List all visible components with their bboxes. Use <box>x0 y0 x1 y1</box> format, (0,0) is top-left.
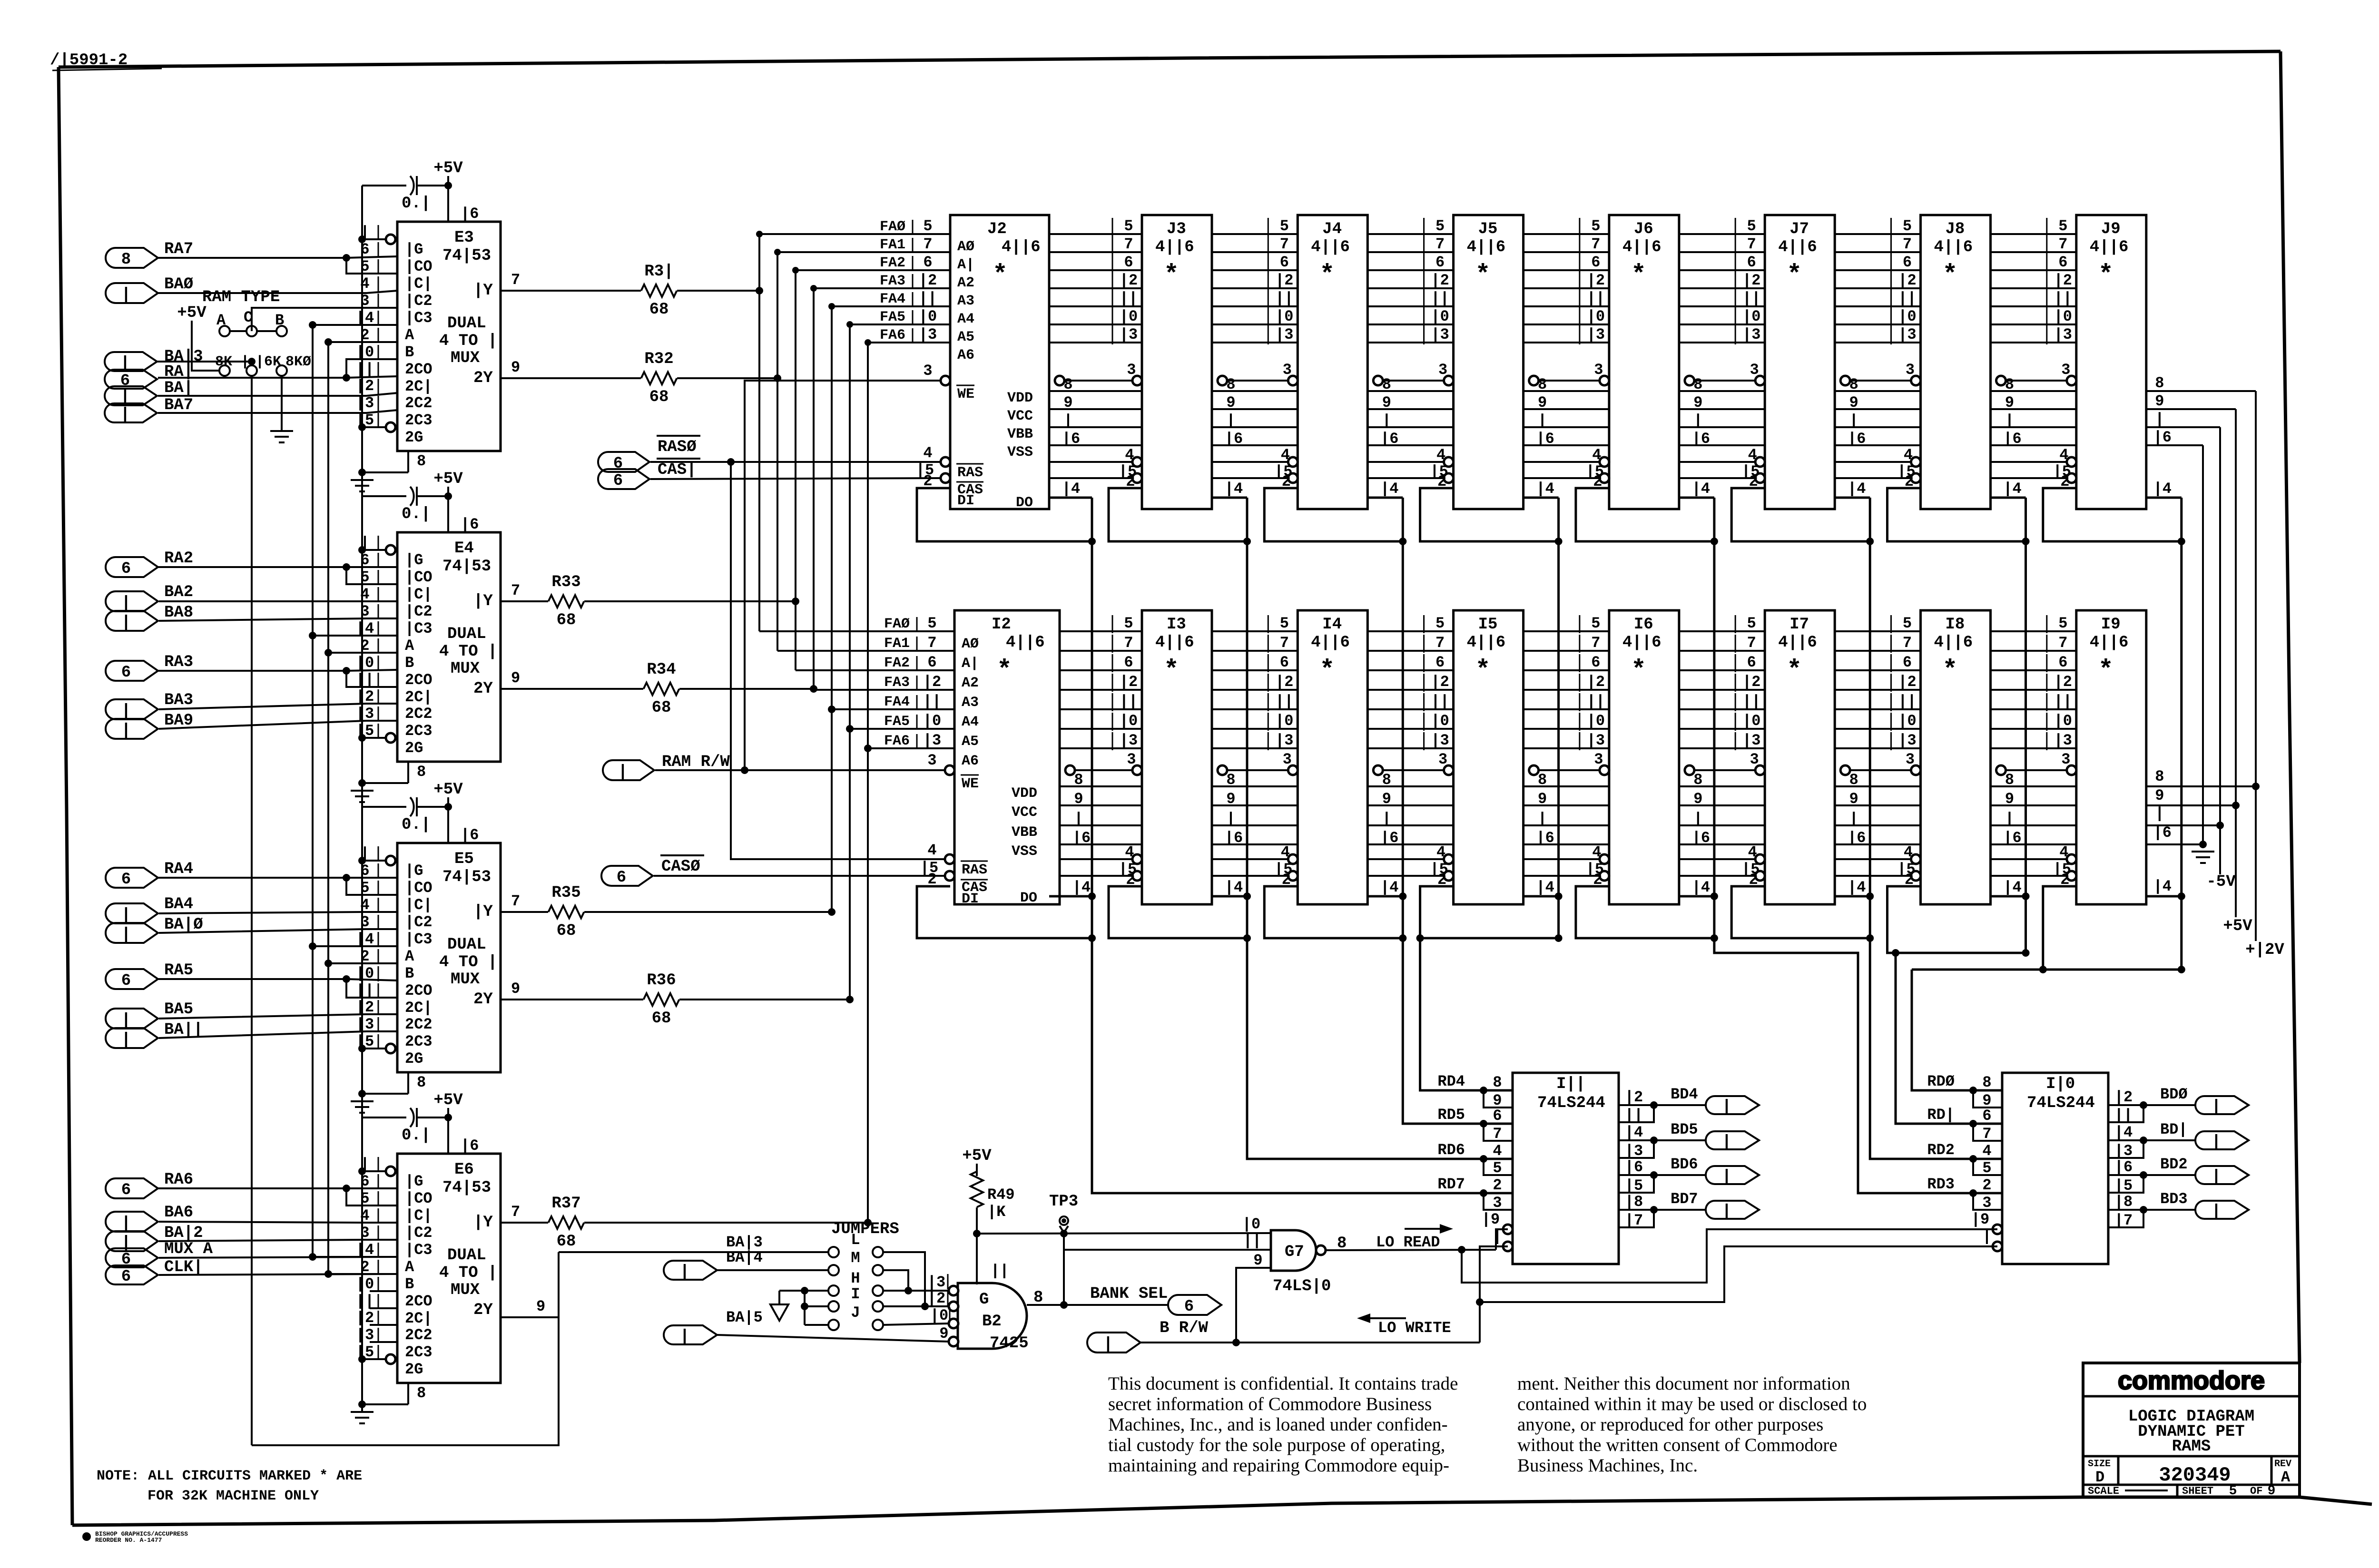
svg-text:|0: |0 <box>930 1307 948 1324</box>
wire address bus segment to I4 <box>1212 630 1298 632</box>
wire power bus segment to J4 <box>1212 390 1298 392</box>
svg-text:|4: |4 <box>1072 879 1091 896</box>
wire FA5 into I2 pin |0 <box>850 728 954 730</box>
svg-text:|0: |0 <box>356 654 374 672</box>
svg-text:2C3: 2C3 <box>405 412 433 429</box>
op-amp J8 4116 RAM <box>1921 215 1991 509</box>
svg-text:C: C <box>244 309 253 326</box>
svg-text:5: 5 <box>1280 615 1289 632</box>
svg-text:|6: |6 <box>1062 430 1080 448</box>
wire power bus segment to I9 <box>1991 785 2076 787</box>
svg-text:|: | <box>1226 810 1235 828</box>
svg-text:6: 6 <box>121 664 131 682</box>
svg-text:6: 6 <box>1903 654 1912 671</box>
svg-text:|4: |4 <box>1625 1124 1643 1141</box>
svg-text:3: 3 <box>1283 361 1292 379</box>
svg-text:74|53: 74|53 <box>442 247 491 265</box>
wire RAS CAS segments to I9 <box>1991 858 2071 860</box>
svg-text:BD5: BD5 <box>1671 1121 1698 1138</box>
svg-text:8: 8 <box>1693 771 1702 789</box>
wire E4 1G 2G enable stubs <box>362 549 386 551</box>
svg-text:|0: |0 <box>1120 712 1138 730</box>
svg-text:BANK SEL: BANK SEL <box>1090 1285 1168 1303</box>
svg-text:CLK|: CLK| <box>164 1258 203 1276</box>
op-amp I9 4116 RAM <box>2076 610 2146 904</box>
svg-text:A: A <box>2281 1469 2291 1486</box>
wire LO READ to I11 pin 19 <box>1496 1229 1508 1250</box>
svg-text:74LS|0: 74LS|0 <box>1273 1277 1331 1295</box>
wire FA3 vertical bus <box>813 288 815 690</box>
svg-text:|0: |0 <box>2054 712 2072 730</box>
svg-text:|3: |3 <box>1120 326 1138 343</box>
op-amp I2 4116 RAM <box>954 610 1060 904</box>
svg-text:|4: |4 <box>1536 879 1554 896</box>
svg-text:4||6: 4||6 <box>1155 634 1194 652</box>
svg-text:FA2: FA2 <box>884 655 910 671</box>
svg-text:||: || <box>1243 1232 1261 1250</box>
svg-text:|Y: |Y <box>473 282 493 300</box>
svg-text:5: 5 <box>1280 217 1289 235</box>
svg-text:6: 6 <box>1280 654 1289 671</box>
svg-text:|C2: |C2 <box>405 913 433 931</box>
wire WE segment to J3 <box>1060 380 1136 382</box>
svg-text:|4: |4 <box>2003 879 2021 896</box>
ground at 8K0 pad <box>281 376 283 431</box>
svg-text:*: * <box>2098 261 2114 290</box>
wire B R/W line <box>1140 1342 1480 1343</box>
node jumper I pads <box>828 1301 839 1312</box>
svg-text:9: 9 <box>1849 790 1858 808</box>
wire G7 pin 9 from B R/W <box>1236 1268 1271 1343</box>
svg-text:A|: A| <box>962 656 979 672</box>
wire FA2 vertical bus <box>795 270 796 670</box>
wire BA11 to E5 2C3 <box>159 1031 397 1038</box>
svg-text:6: 6 <box>1747 654 1756 671</box>
svg-text:|C2: |C2 <box>405 1224 433 1242</box>
svg-text:BA6: BA6 <box>164 1204 193 1222</box>
node BD5 output <box>1654 1139 1706 1141</box>
svg-text:3: 3 <box>1438 361 1447 379</box>
wire address bus segment to J9 <box>1991 233 2076 235</box>
wire address bus segment to I8 <box>1835 630 1920 632</box>
wire LO WRITE to enable <box>1479 1302 1481 1343</box>
svg-text:2C3: 2C3 <box>405 722 433 740</box>
wire BA13 <box>157 361 252 363</box>
svg-text:6: 6 <box>1747 254 1756 271</box>
wire J3 data drop to I3 <box>1246 498 1248 938</box>
svg-text:|C2: |C2 <box>405 603 433 620</box>
svg-text:|6: |6 <box>2114 1158 2133 1176</box>
svg-text:9: 9 <box>1226 394 1235 412</box>
svg-text:|3: |3 <box>1120 732 1138 749</box>
wire FA0 into I2 pin 5 <box>759 630 954 632</box>
op-amp I4 4116 RAM <box>1298 610 1367 904</box>
svg-text:RD|: RD| <box>1927 1106 1955 1124</box>
svg-text:BA|Ø: BA|Ø <box>164 916 203 934</box>
svg-text:|: | <box>1722 1098 1731 1116</box>
node BA4 connector <box>106 903 158 923</box>
wire E6 unused stubs <box>370 1290 397 1292</box>
svg-text:74|53: 74|53 <box>442 1179 491 1197</box>
node BA5 connector <box>106 1009 158 1029</box>
svg-text:8: 8 <box>417 452 426 470</box>
svg-text:RAS: RAS <box>962 862 987 878</box>
svg-text:|0: |0 <box>1587 308 1605 325</box>
svg-text:|: | <box>121 1031 131 1049</box>
wire WE segment to J4 <box>1222 380 1292 382</box>
svg-text:4||6: 4||6 <box>1467 634 1506 652</box>
wire RAS CAS segments to I6 <box>1524 858 1603 860</box>
svg-text:|6: |6 <box>2153 824 2172 842</box>
svg-text:+5V: +5V <box>177 304 206 322</box>
wire J6 data drop to I6 <box>1713 498 1715 938</box>
svg-text:|: | <box>1849 810 1858 828</box>
svg-text:7: 7 <box>2058 634 2067 652</box>
wire jumper HIJ ground <box>804 1291 806 1325</box>
wire RAS CAS segments to I8 <box>1835 858 1915 860</box>
svg-text:4||6: 4||6 <box>1778 634 1817 652</box>
svg-text:7: 7 <box>511 1203 520 1221</box>
node RA1 connector <box>105 370 157 389</box>
svg-text:BAØ: BAØ <box>164 275 193 294</box>
svg-text:|: | <box>1538 810 1547 828</box>
wire J9 data drop to I9 <box>2180 498 2182 970</box>
svg-text:|: | <box>1722 1168 1731 1186</box>
svg-text:|: | <box>1226 412 1235 430</box>
svg-text:9: 9 <box>1849 394 1858 412</box>
wire I11 pin 1 to I10 pin 1 <box>1480 1246 1997 1302</box>
wire E3 1G 2G enable stubs <box>362 238 386 240</box>
svg-text:|0: |0 <box>1742 308 1760 325</box>
node RA2 connector <box>106 557 158 577</box>
wire RD6 net <box>1247 938 1513 1159</box>
wire FA1 into I2 pin 7 <box>777 650 954 652</box>
svg-text:|C|: |C| <box>405 586 433 603</box>
svg-text:R32: R32 <box>644 350 673 368</box>
svg-text:|: | <box>2155 805 2164 823</box>
svg-text:4||6: 4||6 <box>2090 238 2129 256</box>
svg-text:|: | <box>1063 412 1072 430</box>
svg-text:AØ: AØ <box>957 239 974 255</box>
svg-text:RD4: RD4 <box>1437 1073 1465 1090</box>
wire J8 data drop to I8 <box>2025 498 2027 953</box>
svg-text:7: 7 <box>1280 235 1289 253</box>
op-amp I|| 74LS244 buffer <box>1513 1073 1619 1264</box>
svg-text:FA6: FA6 <box>884 733 910 749</box>
wire RA5 to E5 2C0/2C1 <box>158 978 346 980</box>
svg-text:3: 3 <box>1982 1194 1991 1212</box>
svg-text:|: | <box>2212 1203 2221 1221</box>
wire E6 pin16 +5V <box>447 1117 449 1154</box>
svg-text:CAS|: CAS| <box>658 461 697 479</box>
wire address bus segment to J6 <box>1524 233 1609 235</box>
svg-text:||: || <box>1742 693 1760 710</box>
svg-text:BD|: BD| <box>2160 1121 2188 1138</box>
svg-text:FA1: FA1 <box>880 237 905 253</box>
svg-text:|2: |2 <box>1625 1088 1643 1106</box>
svg-text:6: 6 <box>1124 254 1133 271</box>
wire RD2 net <box>1870 938 2002 1159</box>
svg-text:4: 4 <box>1592 843 1601 861</box>
svg-text:+5V: +5V <box>433 781 463 799</box>
wire WE segment to J8 <box>1845 380 1915 382</box>
svg-text:0.|: 0.| <box>402 505 431 523</box>
wire RAS CAS segments to J6 <box>1524 461 1603 463</box>
wire E5 A B stubs <box>313 945 397 947</box>
svg-text:D: D <box>2095 1469 2104 1486</box>
svg-text:*: * <box>1319 261 1335 290</box>
wire WE segment to I8 <box>1845 769 1915 771</box>
node BD7 output <box>1654 1209 1706 1211</box>
svg-text:I5: I5 <box>1478 616 1498 634</box>
wire RAS CAS segments to J8 <box>1835 461 1915 463</box>
svg-text:contained within it may be use: contained within it may be used or discl… <box>1517 1394 1867 1414</box>
wire enable/ground vertical bus for muxes <box>361 186 363 1412</box>
resistor R35 68 ohm <box>501 911 548 913</box>
node jumper L pads <box>828 1247 839 1257</box>
wire I|| input pair 8/9 <box>1484 1090 1513 1107</box>
svg-text:2G: 2G <box>405 429 423 446</box>
svg-text:A3: A3 <box>957 293 974 309</box>
wire FA4 into I2 pin || <box>832 708 954 710</box>
wire bank sel to G7 pin 11 <box>1065 1249 1271 1251</box>
svg-text:maintaining and repairing Comm: maintaining and repairing Commodore equi… <box>1108 1455 1449 1476</box>
op-amp E6 74153 dual 4-to-1 mux <box>397 1154 501 1383</box>
svg-text:2C|: 2C| <box>405 1310 433 1327</box>
wire MUX A to E6 A <box>159 1257 397 1258</box>
svg-text:2G: 2G <box>405 1361 423 1378</box>
svg-text:A3: A3 <box>962 695 979 711</box>
svg-text:|: | <box>1074 810 1083 828</box>
svg-text:||: || <box>2054 290 2072 307</box>
svg-text:A: A <box>405 326 414 344</box>
svg-text:|Y: |Y <box>473 592 493 610</box>
svg-text:FA4: FA4 <box>880 291 905 307</box>
svg-text:4||6: 4||6 <box>1467 238 1506 256</box>
svg-text:G7: G7 <box>1285 1243 1304 1261</box>
node RA5 connector <box>106 969 158 989</box>
svg-text:|2: |2 <box>1587 272 1605 289</box>
arrow LO WRITE <box>1370 1317 1406 1319</box>
svg-text:|C2: |C2 <box>405 292 433 310</box>
svg-text:5: 5 <box>1903 217 1912 235</box>
wire BA5 to E5 2C2 <box>159 1014 397 1019</box>
svg-text:|6: |6 <box>1692 829 1710 847</box>
title block box <box>2083 1363 2300 1497</box>
svg-text:|5: |5 <box>1625 1177 1643 1195</box>
svg-text:2Y: 2Y <box>473 990 493 1009</box>
svg-text:B R/W: B R/W <box>1160 1319 1209 1337</box>
wire J2 DI-DO loop <box>917 488 1092 541</box>
svg-text:FA5: FA5 <box>880 309 905 325</box>
svg-text:9: 9 <box>511 980 520 998</box>
op-amp I7 4116 RAM <box>1765 610 1835 904</box>
svg-text:J7: J7 <box>1789 220 1809 238</box>
svg-text:4: 4 <box>1281 843 1290 861</box>
wire WE segment to J7 <box>1690 380 1759 382</box>
node BDØ output <box>2143 1104 2195 1106</box>
svg-text:6: 6 <box>1435 654 1445 671</box>
svg-text:R35: R35 <box>551 884 580 902</box>
svg-text:2C|: 2C| <box>405 378 433 395</box>
svg-text:|Y: |Y <box>473 903 493 921</box>
wire pull-up to G7 pin 10 <box>977 1233 1271 1234</box>
wire I|0 input pair 4/5 <box>1973 1159 2002 1175</box>
svg-text:BA|5: BA|5 <box>726 1309 763 1326</box>
svg-text:|6: |6 <box>1380 430 1398 448</box>
svg-text:||: || <box>1275 290 1293 307</box>
svg-text:FA2: FA2 <box>880 255 905 271</box>
svg-text:|4: |4 <box>1692 879 1710 896</box>
svg-text:||: || <box>1898 693 1916 710</box>
svg-text:68: 68 <box>557 922 576 940</box>
svg-text:7: 7 <box>1903 634 1912 652</box>
svg-text:|: | <box>121 286 131 304</box>
svg-text:MUX: MUX <box>451 1281 480 1299</box>
op-amp J7 4116 RAM <box>1765 215 1835 509</box>
node MUX A connector <box>106 1248 158 1267</box>
svg-text:VDD: VDD <box>1007 390 1033 406</box>
svg-text:6: 6 <box>1591 654 1600 671</box>
wire power bus segment to I3 <box>1060 785 1142 787</box>
svg-text:FAØ: FAØ <box>880 219 905 235</box>
wire power bus segment to J3 <box>1049 390 1142 392</box>
svg-text:*: * <box>1787 261 1802 290</box>
wire LO READ to I10 pin 19 <box>1462 1229 1997 1283</box>
op-amp J2 4116 RAM <box>950 215 1049 509</box>
svg-text:|: | <box>1103 1335 1113 1353</box>
wire E6 1G 2G enable stubs <box>362 1170 386 1172</box>
svg-text:|6: |6 <box>1848 829 1866 847</box>
svg-text:DUAL: DUAL <box>447 314 486 333</box>
svg-text:7: 7 <box>1982 1125 1991 1143</box>
svg-text:4||6: 4||6 <box>1006 634 1045 652</box>
op-amp I|0 74LS244 buffer <box>2002 1073 2108 1264</box>
svg-text:|3: |3 <box>2054 326 2072 343</box>
svg-text:*: * <box>1319 656 1335 685</box>
svg-text:8: 8 <box>1226 771 1235 789</box>
svg-text:|0: |0 <box>1275 712 1293 730</box>
svg-text:0.|: 0.| <box>402 816 431 834</box>
svg-text:3: 3 <box>2061 751 2070 768</box>
svg-text:|: | <box>2212 1133 2221 1151</box>
svg-text:||: || <box>1120 693 1138 710</box>
svg-text:|CO: |CO <box>405 1190 433 1207</box>
svg-text:CASØ: CASØ <box>661 858 700 876</box>
svg-text:6: 6 <box>1903 254 1912 271</box>
svg-text:|5: |5 <box>2114 1177 2133 1195</box>
svg-text:8: 8 <box>2005 376 2014 393</box>
svg-text:|3: |3 <box>1431 326 1449 343</box>
op-amp E4 74153 dual 4-to-1 mux <box>397 532 501 762</box>
svg-text:|3: |3 <box>1431 732 1449 749</box>
svg-text:|3: |3 <box>1625 1142 1643 1160</box>
ground at VSS rail <box>2192 851 2214 853</box>
svg-text:||: || <box>356 361 374 378</box>
svg-text:BA|: BA| <box>164 379 193 397</box>
svg-text:NOTE: ALL CIRCUITS MARKED * AR: NOTE: ALL CIRCUITS MARKED * ARE <box>97 1468 362 1484</box>
svg-text:7: 7 <box>1435 634 1445 652</box>
svg-text:|3: |3 <box>1898 326 1916 343</box>
wire CAS0 to I2 CAS <box>654 875 945 877</box>
svg-text:G: G <box>979 1291 989 1309</box>
resistor R33 68 ohm <box>501 600 548 602</box>
wire BA6 to E6 1C2 <box>159 1222 397 1223</box>
svg-text:9: 9 <box>1382 394 1391 412</box>
svg-text:2: 2 <box>1493 1176 1502 1194</box>
svg-text:7425: 7425 <box>990 1334 1029 1352</box>
wire address bus segment to I7 <box>1679 630 1765 632</box>
svg-text:*: * <box>993 261 1008 290</box>
svg-text:8: 8 <box>1849 771 1858 789</box>
wire BA15 to B2 pin 9 <box>717 1335 949 1342</box>
svg-text:9: 9 <box>1074 790 1083 808</box>
wire RAS CAS segments to J7 <box>1679 461 1759 463</box>
svg-text:BD6: BD6 <box>1671 1156 1698 1173</box>
border frame right <box>2281 51 2300 1363</box>
svg-text:I2: I2 <box>992 616 1011 634</box>
svg-text:6: 6 <box>121 560 131 578</box>
svg-text:R36: R36 <box>647 971 676 990</box>
svg-text:|: | <box>121 614 131 632</box>
svg-text:2C|: 2C| <box>405 688 433 706</box>
node BA3 connector <box>106 699 158 719</box>
wire FA2 into I2 pin 6 <box>796 669 954 671</box>
svg-text:9: 9 <box>2155 392 2164 410</box>
svg-text:|: | <box>2212 1098 2221 1116</box>
svg-text:6: 6 <box>1435 254 1445 271</box>
svg-text:|2: |2 <box>1275 272 1293 289</box>
resistor R3| 68 ohm <box>501 290 641 292</box>
svg-text:74LS244: 74LS244 <box>1537 1094 1605 1112</box>
svg-text:RA6: RA6 <box>164 1171 193 1189</box>
wire BA13 jumper route <box>252 1252 559 1445</box>
svg-text:7: 7 <box>1124 235 1133 253</box>
svg-text:R34: R34 <box>647 661 676 679</box>
wire BA1 to E3 2C2 <box>158 393 397 396</box>
svg-text:5: 5 <box>1435 615 1445 632</box>
svg-text:|K: |K <box>987 1203 1006 1221</box>
svg-text:|CO: |CO <box>405 568 433 586</box>
svg-text:|G: |G <box>405 1173 423 1190</box>
svg-text:4||6: 4||6 <box>1622 238 1661 256</box>
svg-text:|: | <box>121 594 131 612</box>
wire address bus segment to J8 <box>1835 233 1920 235</box>
svg-text:5: 5 <box>1591 615 1600 632</box>
svg-text:|C3: |C3 <box>405 1241 433 1259</box>
svg-text:|2: |2 <box>2054 673 2072 691</box>
svg-text:8: 8 <box>1849 376 1858 393</box>
wire J5 DI-DO loop <box>1420 488 1559 541</box>
svg-text:|4: |4 <box>2003 480 2021 498</box>
ground at E3 <box>351 479 374 481</box>
ground triangle at jumpers <box>770 1304 788 1321</box>
svg-text:This document is confidential.: This document is confidential. It contai… <box>1108 1373 1458 1394</box>
svg-text:5: 5 <box>1982 1159 1991 1177</box>
svg-text:RD2: RD2 <box>1927 1141 1955 1159</box>
svg-text:RD5: RD5 <box>1437 1106 1465 1124</box>
svg-text:||: || <box>2114 1107 2133 1124</box>
svg-text:74|53: 74|53 <box>442 558 491 576</box>
svg-text:2C2: 2C2 <box>405 1016 433 1033</box>
svg-text:9: 9 <box>2268 1484 2276 1499</box>
svg-text:6: 6 <box>613 472 623 490</box>
wire RAS CAS segments to I3 <box>1060 858 1136 860</box>
svg-text:|: | <box>121 1215 131 1233</box>
svg-text:DI: DI <box>957 493 974 509</box>
svg-text:8: 8 <box>1382 771 1391 789</box>
svg-text:|3: |3 <box>923 732 941 749</box>
